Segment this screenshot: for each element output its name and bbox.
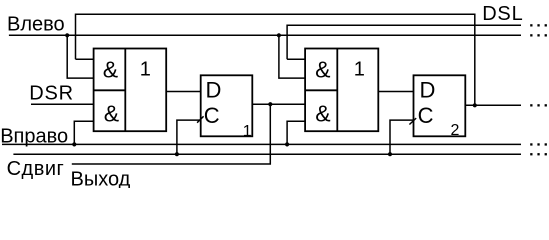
AND-OR gate U1 cell divider xyxy=(94,89,126,91)
net Q2 wire xyxy=(465,104,521,106)
svg-text:Влево: Влево xyxy=(7,13,65,35)
wire Сдвиг to DD2 C input xyxy=(390,120,414,154)
node Влево stage1 junction dot xyxy=(65,33,69,37)
wire DSL to U2 AND input xyxy=(287,58,305,60)
AND-OR gate U1 outline xyxy=(94,49,167,132)
svg-text:C: C xyxy=(418,103,434,128)
svg-text:&: & xyxy=(315,57,330,83)
wire Влево to U1 AND input xyxy=(67,35,93,78)
svg-text:1: 1 xyxy=(354,59,365,81)
node Сдвиг to C1 junction dot xyxy=(175,152,179,156)
wire Вправо to U1 AND input xyxy=(74,121,93,144)
svg-text:1: 1 xyxy=(243,123,252,140)
wire Сдвиг to DD1 C input xyxy=(177,120,201,154)
svg-text:&: & xyxy=(103,57,118,83)
net DSL wire xyxy=(287,25,521,59)
net Q2 feedback wire (top line to stage-1 AND input) xyxy=(76,14,475,105)
node Вправо stage1 junction dot xyxy=(72,142,76,146)
svg-text:D: D xyxy=(420,77,436,102)
wire feedback to U1 AND input xyxy=(76,58,94,60)
net Сдвиг (clock) wire xyxy=(13,153,521,155)
D flip-flop DD2 outline xyxy=(414,75,466,136)
node Сдвиг to C2 junction dot xyxy=(388,152,392,156)
node Q1 to Выход junction dot xyxy=(268,102,272,106)
net Q1 wire xyxy=(252,103,305,105)
AND-OR gate U2 outline xyxy=(305,49,378,132)
svg-text:Выход: Выход xyxy=(71,168,131,188)
net Выход wire xyxy=(72,104,270,164)
node Вправо stage2 junction dot xyxy=(285,142,289,146)
ellipsis dots Влево continuation xyxy=(530,34,547,36)
wire U2 OR output to DD2 D input xyxy=(378,91,413,93)
node Влево stage2 junction dot xyxy=(277,33,281,37)
net Вправо wire xyxy=(2,143,521,145)
net Влево wire xyxy=(9,34,521,36)
svg-text:&: & xyxy=(104,100,119,126)
ellipsis dots Q2 continuation xyxy=(530,104,547,106)
ellipsis dots Сдвиг continuation xyxy=(530,153,547,155)
svg-text:1: 1 xyxy=(140,59,151,81)
svg-text:&: & xyxy=(315,100,330,126)
svg-text:DSR: DSR xyxy=(29,83,74,105)
net DSR wire xyxy=(31,103,94,105)
wire Влево to U2 AND input xyxy=(279,35,305,78)
AND-OR gate U2 cell divider xyxy=(305,89,337,91)
wire U1 OR output to DD1 D input xyxy=(166,91,201,93)
D flip-flop DD1 outline xyxy=(201,75,253,136)
node Q2 feedback junction dot xyxy=(473,103,477,107)
AND-OR gate U1 column divider xyxy=(124,49,126,132)
ellipsis dots DSL continuation xyxy=(530,24,547,26)
svg-text:DSL: DSL xyxy=(482,3,523,25)
svg-text:2: 2 xyxy=(451,122,460,139)
dynamic input slash DD1 xyxy=(197,116,204,122)
ellipsis dots Вправо continuation xyxy=(530,143,547,145)
AND-OR gate U2 column divider xyxy=(336,49,338,132)
svg-text:D: D xyxy=(206,77,222,102)
dynamic input slash DD2 xyxy=(409,118,416,124)
svg-text:Сдвиг: Сдвиг xyxy=(7,158,65,180)
wire Вправо to U2 AND input xyxy=(287,121,305,144)
svg-text:C: C xyxy=(204,103,220,128)
